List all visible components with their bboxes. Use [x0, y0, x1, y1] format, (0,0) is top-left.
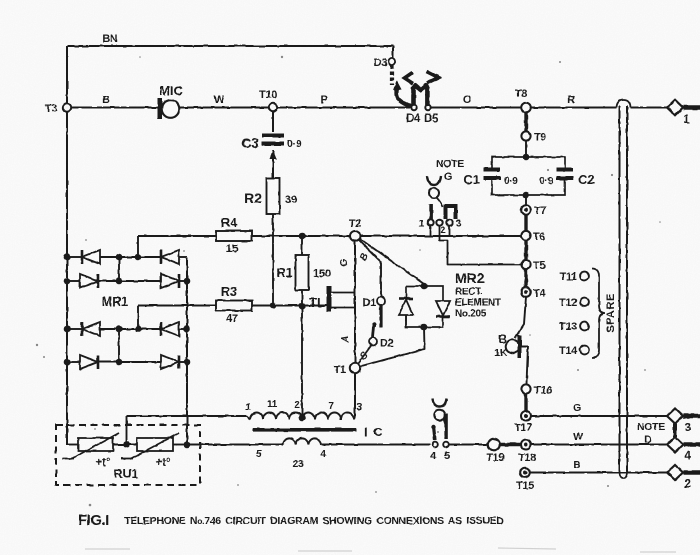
- wire T6-T5 thick: [524, 240, 527, 260]
- MR2 junction bottom: [421, 324, 428, 331]
- wire D2 to T1: [357, 345, 372, 365]
- wire T1 down to transformer: [354, 373, 356, 416]
- wire T10 down to C3: [272, 112, 274, 133]
- wire R4 to T2: [252, 235, 351, 237]
- contact 5: [443, 442, 449, 448]
- wire RU1 tap up to transformer: [126, 416, 128, 445]
- node T9: [521, 131, 530, 140]
- diode MR1-2b: [161, 274, 179, 288]
- transformer IC primary winding: [250, 413, 354, 420]
- wire T8 to hop: [531, 107, 617, 109]
- wire RU1 tap to primary: [127, 415, 247, 417]
- node T3: [67, 107, 158, 109]
- terminal diamond 2: [667, 465, 683, 480]
- contact D5: [425, 105, 430, 110]
- node T7: [521, 205, 531, 215]
- wire R4 into MR1: [137, 236, 139, 257]
- capacitor C2: [557, 168, 574, 172]
- terminal diamond 3: [667, 409, 683, 424]
- arrow on C3 lead: [272, 150, 274, 178]
- node T1: [350, 363, 360, 373]
- strap diamond3-diamond4: [673, 424, 677, 438]
- resistor R2 39: [267, 178, 280, 214]
- junction R2/R3: [270, 302, 277, 309]
- node T10: [269, 107, 410, 109]
- node T16: [521, 384, 530, 393]
- junction R1 top: [299, 233, 306, 240]
- wire R3 to TL: [252, 305, 327, 307]
- wire BN top branch: [67, 45, 393, 47]
- contact 3: [446, 219, 452, 225]
- MR1 junction dots: [64, 254, 71, 261]
- resistor R4 15: [216, 231, 252, 241]
- wire T7-T6 thick: [524, 215, 527, 231]
- transformer IC secondary winding 23: [283, 438, 321, 444]
- node T8: [521, 103, 531, 113]
- MR1 right rail: [186, 257, 188, 445]
- primary right end to T1: [354, 416, 355, 420]
- gravity switch plunger G: [427, 176, 441, 185]
- gravity switch plunger D45: [433, 399, 447, 407]
- resistor R3 47: [216, 301, 252, 311]
- wire MIC to T10: [180, 107, 270, 109]
- thermistor RU1-a: [78, 438, 113, 451]
- wire T2 down to T1: [354, 241, 356, 363]
- terminal diamond 1: [667, 100, 683, 115]
- MR1 left rail: [66, 112, 68, 445]
- paper grain: [0, 0, 1, 1]
- wire secondary to D contacts: [321, 444, 430, 446]
- contact D3: [388, 58, 395, 65]
- wire R3 into MR1: [137, 306, 139, 330]
- wire D5 to T8: [432, 107, 522, 109]
- MR1 row2 wires: [67, 280, 80, 282]
- thermistor RU1-b: [137, 438, 173, 451]
- diode MR1-2a: [80, 274, 98, 288]
- MR1 inner verticals: [118, 257, 120, 281]
- contact 5 bar: [444, 414, 447, 439]
- diode MR1-4b: [161, 355, 179, 369]
- rectifier MR2 outline: [406, 286, 443, 327]
- node T6: [521, 231, 530, 240]
- terminal diamond 4: [667, 437, 683, 452]
- wire T2 to MR2 top: [360, 239, 425, 285]
- contact 2: [436, 219, 442, 225]
- wire between thermistors: [113, 444, 137, 446]
- MR1 row3 wires: [67, 328, 82, 330]
- microphone MIC: [158, 98, 163, 119]
- node T18: [521, 440, 531, 450]
- MR1 row1 wires: [67, 256, 82, 258]
- contact D2: [373, 326, 374, 337]
- diode MR1-3b: [160, 322, 163, 336]
- strap T19-T18 thick: [500, 443, 521, 447]
- transistor TL: [327, 286, 332, 312]
- wire R4 left to MR1: [138, 235, 216, 237]
- wire T17 to diamond 3: [531, 415, 667, 417]
- contact 4: [432, 442, 438, 448]
- wire hop over cable: [617, 100, 631, 108]
- wire into RU1: [67, 444, 78, 446]
- wire T16-T17 thick: [524, 394, 527, 413]
- wire T2 main to T6: [360, 235, 522, 237]
- wire T15 to diamond 2: [530, 472, 667, 474]
- node T2: [350, 231, 360, 241]
- gravity switch plunger D: [414, 85, 428, 105]
- node T15: [520, 468, 530, 478]
- spare brace: [592, 268, 605, 358]
- wire contact2 to T5: [440, 225, 522, 264]
- wire T4 to bell: [515, 297, 526, 338]
- wire R3 left to MR1: [138, 305, 216, 307]
- wire T18 to diamond 4: [531, 444, 667, 446]
- primary centre tap: [299, 415, 306, 422]
- MR2 right diode: [436, 301, 450, 316]
- capacitor bridge C1/C2: [523, 154, 530, 161]
- wire rail to secondary: [187, 444, 283, 446]
- contact 4 tick: [434, 426, 436, 440]
- node T5: [521, 260, 530, 269]
- MR1 row4 wires: [67, 361, 80, 363]
- wire T5-T4 thick: [524, 269, 527, 287]
- junction R1 bottom: [299, 303, 306, 310]
- diode MR1-4a: [80, 355, 98, 369]
- node T19: [488, 439, 500, 451]
- resistor R1 150: [301, 236, 303, 255]
- MR2 left diode: [399, 297, 413, 300]
- wire T2 to D1: [359, 240, 382, 298]
- wire T8-T9 (thick): [524, 112, 527, 132]
- capacitor C1: [484, 168, 501, 172]
- contact 1: [427, 219, 433, 225]
- RU1 dashed box: [56, 425, 200, 485]
- node T4: [521, 287, 531, 297]
- diode MR1-1b: [160, 250, 163, 264]
- diode MR1-1a: [81, 250, 84, 264]
- transformer core: [253, 428, 356, 432]
- diode MR1-3a: [81, 322, 84, 336]
- MR2 junction top: [421, 283, 428, 290]
- contact D4: [411, 105, 416, 110]
- capacitor C3 0.9: [262, 134, 284, 138]
- cable double line: [619, 106, 621, 471]
- wire R2 down across to R3 junction: [272, 214, 274, 306]
- G contact bars: [429, 204, 433, 219]
- node T17: [521, 411, 531, 421]
- bell B 1K: [506, 340, 520, 354]
- contact D1: [377, 297, 385, 305]
- wire thermistor to rail: [173, 444, 188, 446]
- wire MR2 bottom to T1: [360, 327, 425, 367]
- wire to T19: [450, 444, 489, 446]
